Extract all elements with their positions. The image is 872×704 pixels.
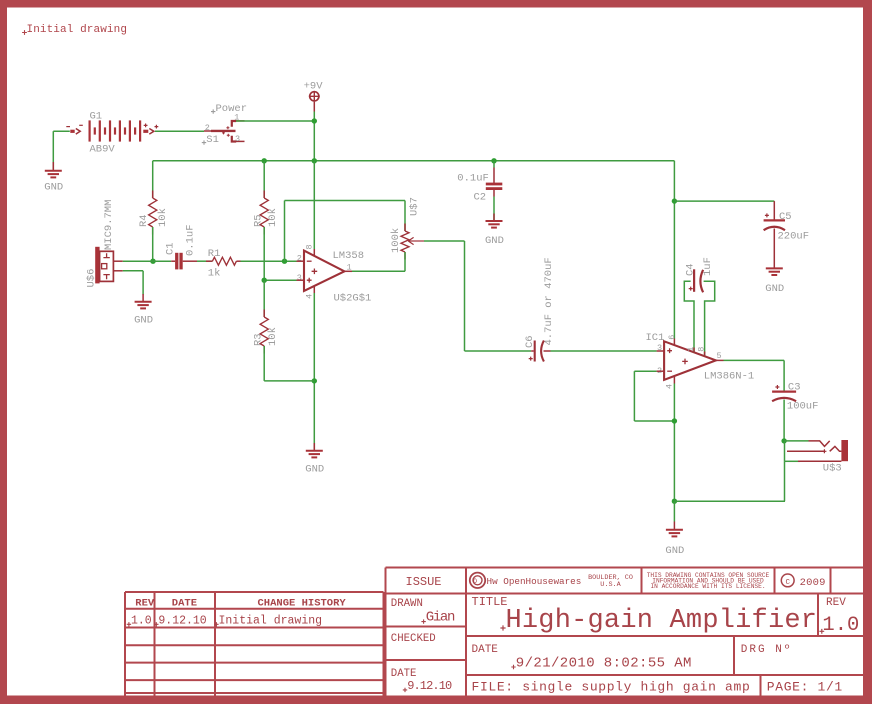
- resistor R1: [206, 248, 241, 279]
- svg-text:GND: GND: [44, 182, 63, 194]
- svg-text:9.12.10: 9.12.10: [407, 679, 452, 693]
- wire: [53, 130, 70, 132]
- op-amp input marks: [307, 261, 317, 282]
- wire: [155, 130, 204, 132]
- cell DATE (drawn): [391, 668, 452, 693]
- pin number 3 (S1): [235, 134, 240, 144]
- svg-text:U$7: U$7: [408, 197, 420, 216]
- ground GND (op-amp): [305, 443, 324, 476]
- wire rail right: [673, 161, 675, 346]
- svg-text:C4: C4: [685, 263, 697, 276]
- wire: [404, 201, 406, 232]
- svg-text:GND: GND: [485, 235, 504, 247]
- svg-text:CHECKED: CHECKED: [391, 633, 436, 645]
- wire: [123, 260, 171, 262]
- pin number 4 (IC1): [664, 384, 674, 389]
- wire: [634, 371, 674, 421]
- svg-text:FILE: single supply high gain: FILE: single supply high gain amp: [472, 679, 751, 694]
- svg-text:G1: G1: [90, 111, 103, 123]
- svg-text:C2: C2: [474, 192, 487, 204]
- battery G1 terminal -: [66, 125, 83, 134]
- cell ISSUE: [406, 575, 442, 589]
- svg-text:2: 2: [205, 123, 210, 133]
- jack U$3 switch contact: [787, 446, 841, 453]
- svg-text:3: 3: [235, 134, 240, 144]
- junction: [150, 259, 155, 264]
- cell REV: [819, 597, 859, 637]
- battery G1 terminal +: [143, 124, 158, 135]
- jack U$3 tip contact: [809, 441, 830, 447]
- text BOULDER CO: [588, 574, 633, 589]
- svg-text:DRG Nº: DRG Nº: [741, 644, 793, 656]
- wire gnd rail: [674, 500, 785, 502]
- svg-text:10k: 10k: [157, 208, 169, 227]
- wire wiper: [424, 241, 531, 351]
- wire: [264, 346, 314, 381]
- svg-text:4: 4: [304, 294, 314, 299]
- svg-text:6: 6: [667, 335, 677, 340]
- wire +9V rail: [153, 160, 675, 162]
- svg-text:R1: R1: [208, 248, 221, 260]
- svg-text:1k: 1k: [208, 267, 221, 279]
- label IC1: [646, 332, 665, 344]
- op-amp U$2 triangle: [304, 251, 344, 291]
- svg-text:Initial drawing: Initial drawing: [27, 24, 128, 36]
- wire: [263, 227, 265, 280]
- wire: [197, 260, 212, 262]
- wire: [236, 120, 314, 122]
- wire: [784, 440, 808, 442]
- svg-text:R5: R5: [253, 214, 265, 227]
- ground GND (C5): [765, 268, 784, 294]
- svg-text:2: 2: [297, 253, 302, 263]
- svg-text:DATE: DATE: [472, 644, 499, 656]
- wire: [123, 271, 143, 295]
- svg-text:9.12.10: 9.12.10: [158, 615, 206, 628]
- switch S1 contact 1: [232, 121, 245, 127]
- svg-text:3: 3: [297, 273, 302, 283]
- capacitor C3: [772, 381, 818, 412]
- op-amp pin 8 wire: [313, 161, 315, 256]
- pin number 8 (IC1): [696, 347, 706, 352]
- svg-text:Power: Power: [216, 103, 248, 115]
- svg-text:REV: REV: [826, 597, 846, 609]
- cell DRAWN: [391, 598, 455, 625]
- wire: [241, 260, 305, 262]
- pin number 1 (S1): [234, 113, 239, 123]
- copyright 2009: [781, 574, 825, 589]
- svg-text:U.S.A: U.S.A: [600, 581, 621, 589]
- svg-text:8: 8: [304, 244, 314, 249]
- wire feedback: [285, 201, 406, 262]
- svg-text:High-gain Amplifier: High-gain Amplifier: [506, 606, 818, 636]
- capacitor C4: [685, 257, 715, 292]
- wire: [716, 360, 784, 391]
- junction: [781, 438, 786, 443]
- label AB9V: [90, 143, 116, 155]
- cell TITLE: [472, 595, 818, 636]
- junction: [312, 158, 317, 163]
- resistor R3: [253, 310, 279, 354]
- capacitor C6: [524, 257, 555, 361]
- cell PAGE: [767, 679, 843, 694]
- junction: [312, 378, 317, 383]
- junction: [672, 198, 677, 203]
- svg-text:0.1uF: 0.1uF: [185, 224, 197, 256]
- svg-text:U$6: U$6: [85, 269, 97, 288]
- wire: [784, 461, 786, 501]
- pin number 2: [297, 253, 302, 263]
- pin number 6 (IC1): [667, 335, 677, 340]
- label LM358: [333, 250, 365, 262]
- svg-text:REV: REV: [135, 597, 155, 609]
- svg-text:0.1uF: 0.1uF: [457, 172, 489, 184]
- svg-text:C1: C1: [164, 242, 176, 255]
- wire: [493, 161, 495, 183]
- svg-text:10k: 10k: [267, 208, 279, 227]
- junction: [312, 118, 317, 123]
- svg-text:100uF: 100uF: [787, 401, 819, 413]
- svg-text:DATE: DATE: [172, 597, 197, 609]
- junction: [262, 158, 267, 163]
- wire: [674, 200, 774, 202]
- cell DRG No: [741, 644, 793, 656]
- svg-text:AB9V: AB9V: [90, 143, 116, 155]
- wire C4 loop: [684, 281, 714, 356]
- jack U$3 sleeve: [798, 460, 841, 462]
- junction: [282, 259, 287, 264]
- pin number 3: [297, 273, 302, 283]
- svg-text:GND: GND: [134, 314, 153, 326]
- svg-text:S1: S1: [206, 134, 219, 146]
- cell CHECKED: [391, 633, 436, 645]
- jack U$3 body: [841, 440, 848, 461]
- svg-text:C3: C3: [788, 381, 801, 393]
- op-amp IC1 marks: [667, 348, 688, 371]
- pin number 2 (IC1): [657, 366, 662, 376]
- svg-text:R3: R3: [253, 333, 265, 346]
- svg-text:ISSUE: ISSUE: [406, 575, 442, 589]
- op-amp IC1 triangle: [664, 341, 716, 380]
- svg-text:5: 5: [717, 351, 722, 361]
- wire: [785, 441, 801, 461]
- svg-text:U$2G$1: U$2G$1: [334, 292, 372, 304]
- svg-text:2009: 2009: [800, 577, 826, 589]
- wire: [404, 252, 406, 271]
- license fine print: [647, 572, 770, 590]
- wire: [152, 227, 154, 261]
- svg-text:TITLE: TITLE: [472, 595, 508, 609]
- table headers: [135, 597, 346, 609]
- capacitor C1: [164, 224, 197, 269]
- pin number 8: [304, 244, 314, 249]
- svg-text:PAGE: 1/1: PAGE: 1/1: [767, 679, 843, 694]
- battery G1 cells: [89, 120, 142, 141]
- svg-text:3: 3: [657, 343, 662, 353]
- svg-text:10k: 10k: [267, 327, 279, 346]
- svg-text:LM386N-1: LM386N-1: [704, 371, 754, 383]
- svg-text:DRAWN: DRAWN: [391, 598, 423, 610]
- wire: [263, 280, 265, 317]
- supply +9V symbol: [304, 81, 324, 112]
- svg-text:C: C: [785, 579, 790, 587]
- resistor R5: [253, 191, 279, 235]
- svg-text:9/21/2010 8:02:55 AM: 9/21/2010 8:02:55 AM: [516, 655, 692, 671]
- label Power: [211, 103, 247, 115]
- label LM386N-1: [704, 371, 754, 383]
- svg-text:1.0: 1.0: [131, 615, 152, 628]
- capacitor C2: [457, 172, 502, 203]
- svg-text:GND: GND: [765, 283, 784, 295]
- svg-text:1.0: 1.0: [822, 614, 859, 637]
- wire: [493, 190, 495, 221]
- row 1.0: [127, 615, 322, 628]
- svg-text:MIC9.7MM: MIC9.7MM: [103, 200, 115, 250]
- title block grid: [386, 568, 864, 696]
- label S1: [202, 134, 219, 146]
- svg-text:100k: 100k: [390, 228, 402, 253]
- pin number 3 (IC1): [657, 343, 662, 353]
- svg-text:GND: GND: [665, 545, 684, 557]
- wire: [152, 161, 154, 198]
- svg-text:U$3: U$3: [823, 462, 842, 474]
- potentiometer U$7: [390, 197, 424, 259]
- change history table grid: [125, 592, 384, 696]
- svg-text:IN ACCORDANCE WITH ITS LICENSE: IN ACCORDANCE WITH ITS LICENSE.: [650, 583, 765, 590]
- svg-text:GND: GND: [305, 464, 324, 476]
- wire: [263, 161, 265, 198]
- svg-text:C6: C6: [524, 335, 536, 348]
- svg-text:Hw OpenHousewares: Hw OpenHousewares: [487, 576, 582, 587]
- svg-text:Initial drawing: Initial drawing: [219, 615, 323, 628]
- junction: [672, 499, 677, 504]
- resistor R4: [138, 191, 169, 235]
- sheet note text: [22, 24, 127, 36]
- ground GND (battery): [44, 162, 63, 194]
- svg-text:LM358: LM358: [333, 250, 365, 262]
- pin number 5 (IC1): [717, 351, 722, 361]
- wire: [313, 112, 315, 161]
- switch S1 contact 3: [232, 136, 245, 142]
- pin number 1 (IC1): [686, 347, 696, 352]
- cell FILE: [472, 679, 751, 694]
- cell DATE: [472, 644, 692, 672]
- junction: [672, 418, 677, 423]
- svg-text:R4: R4: [138, 214, 150, 227]
- wire: [52, 131, 54, 169]
- svg-text:Gian: Gian: [426, 609, 455, 625]
- pin number 4: [304, 294, 314, 299]
- switch S1 pivot marks: [222, 126, 230, 137]
- ground GND (IC1): [665, 501, 684, 557]
- svg-text:1uF: 1uF: [702, 257, 714, 276]
- svg-text:4: 4: [664, 384, 674, 389]
- wire pin4 down: [673, 376, 675, 501]
- svg-text:+9V: +9V: [304, 81, 324, 93]
- junction: [491, 158, 496, 163]
- wire output: [344, 270, 405, 272]
- svg-text:4.7uF or 470uF: 4.7uF or 470uF: [543, 257, 555, 345]
- ground GND (C2): [485, 214, 504, 247]
- op-amp pin 4 wire: [313, 286, 315, 450]
- logo OpenHousewares: [470, 573, 582, 588]
- capacitor C5: [764, 201, 809, 268]
- label U$3: [823, 462, 842, 474]
- pin number 2 (S1): [205, 123, 210, 133]
- wire: [783, 400, 785, 441]
- mic pin wires: [113, 261, 122, 271]
- svg-text:C5: C5: [779, 211, 792, 223]
- wire: [551, 350, 665, 352]
- wire pin3: [264, 279, 304, 281]
- pin number 1: [347, 263, 352, 273]
- svg-text:220uF: 220uF: [778, 231, 810, 243]
- microphone U$6: [85, 200, 115, 288]
- ground GND (mic): [134, 294, 153, 326]
- svg-text:CHANGE HISTORY: CHANGE HISTORY: [258, 597, 347, 609]
- junction: [262, 278, 267, 283]
- switch S1 pole: [204, 130, 236, 132]
- svg-text:O: O: [473, 578, 477, 585]
- label U$2G$1: [334, 292, 372, 304]
- label G1: [90, 111, 103, 123]
